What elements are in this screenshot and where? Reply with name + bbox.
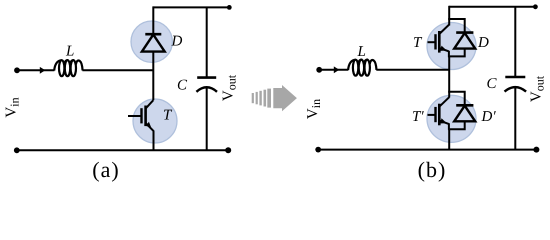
- wire main branch top into switch (b): [448, 6, 450, 26]
- svg-text:Vin: Vin: [4, 97, 22, 117]
- wire diode bottom stub (b top switch): [448, 49, 465, 57]
- wire inductor to branch (a): [82, 69, 153, 71]
- svg-text:C: C: [487, 76, 498, 92]
- inductor L (a): [54, 60, 82, 76]
- node bottom-right terminal (a): [225, 147, 231, 153]
- wire branch top to diode (a): [152, 6, 154, 34]
- capacitor C (a): [196, 78, 217, 92]
- wire emitter to bottom rail (a): [153, 131, 155, 151]
- svg-text:Vout: Vout: [529, 75, 547, 102]
- transistor T' IGBT (b): [428, 97, 450, 130]
- inductor L (b): [348, 60, 376, 76]
- svg-text:Vout: Vout: [221, 74, 239, 101]
- svg-text:T′: T′: [412, 109, 424, 125]
- switch circle around T (a): [133, 99, 177, 143]
- diode D' (b): [454, 105, 475, 121]
- wire bottom rail (b): [318, 149, 536, 151]
- svg-text:L: L: [65, 44, 74, 60]
- wire top rail (a): [153, 6, 229, 8]
- diode D (b): [454, 33, 475, 49]
- transistor T IGBT (a): [128, 100, 154, 131]
- wire top rail (b): [449, 6, 535, 8]
- svg-text:(a): (a): [92, 157, 119, 182]
- wire capacitor branch top (b): [514, 7, 516, 77]
- wire capacitor branch top (a): [206, 7, 208, 77]
- node bottom-left terminal (b): [315, 147, 321, 153]
- wire bottom rail (a): [17, 149, 228, 151]
- svg-text:Vin: Vin: [305, 99, 323, 119]
- capacitor C (b): [505, 77, 527, 92]
- node top-right terminal (b): [533, 4, 538, 9]
- wire capacitor bottom lead (b): [514, 88, 516, 150]
- wire inductor to branch (b): [376, 69, 449, 71]
- switch circle around T' and D' (b): [427, 95, 476, 142]
- wire top stub to diode branch (b bottom switch): [448, 92, 465, 105]
- diode D (a): [142, 34, 165, 51]
- transistor T IGBT (b): [428, 25, 450, 58]
- wire top stub to diode branch (b top switch): [448, 19, 465, 32]
- wire diode to IGBT collector (a): [152, 52, 154, 101]
- node: input terminal (b): [316, 67, 322, 73]
- svg-text:D: D: [477, 35, 489, 51]
- wire mid branch between switches (b): [448, 56, 450, 97]
- switch circle around T and D (b): [427, 23, 476, 70]
- wire diode bottom stub (b bottom switch): [448, 121, 465, 129]
- arrowhead current direction (b): [334, 66, 340, 73]
- wire main branch bottom (b): [448, 129, 450, 149]
- svg-text:L: L: [357, 44, 366, 60]
- svg-text:(b): (b): [418, 157, 447, 182]
- wire capacitor bottom lead (a): [206, 88, 208, 151]
- node: input terminal (a): [14, 67, 20, 73]
- node bottom-left terminal (a): [14, 147, 20, 153]
- wire input horizontal (b): [319, 69, 348, 71]
- switch circle around D (a): [131, 21, 172, 62]
- svg-text:C: C: [177, 78, 188, 94]
- striped arrow: [252, 85, 297, 111]
- svg-text:D: D: [171, 34, 183, 50]
- svg-text:T: T: [413, 35, 423, 51]
- node bottom-right terminal (b): [533, 147, 539, 153]
- node top-right terminal (a): [227, 5, 232, 10]
- svg-text:D′: D′: [481, 109, 497, 125]
- wire input horizontal (a): [17, 69, 54, 71]
- arrowhead current direction (a): [40, 67, 46, 74]
